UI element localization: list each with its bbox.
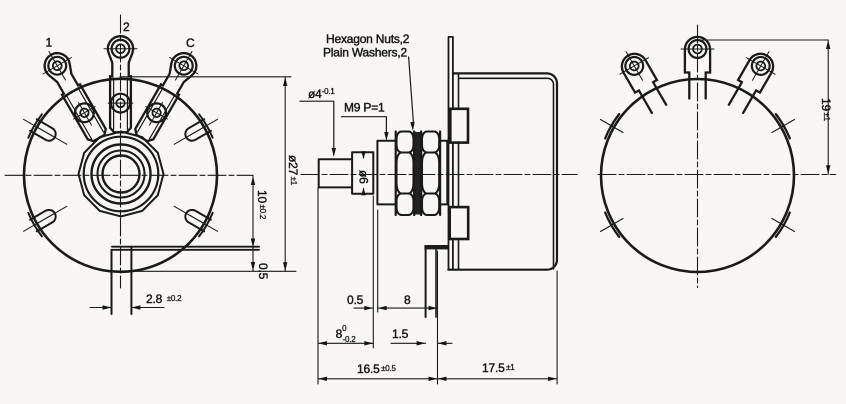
svg-text:2.8 ±0.2: 2.8 ±0.2 <box>146 292 182 306</box>
svg-text:2: 2 <box>123 20 130 34</box>
svg-text:M9 P=1: M9 P=1 <box>344 101 385 115</box>
svg-text:17.5±1: 17.5±1 <box>482 361 515 375</box>
svg-text:ø6: ø6 <box>357 170 371 184</box>
svg-text:0.5: 0.5 <box>256 263 270 280</box>
svg-text:Hexagon Nuts,2: Hexagon Nuts,2 <box>326 32 410 46</box>
svg-text:80-0.2: 80-0.2 <box>336 324 357 344</box>
svg-text:1.5: 1.5 <box>392 327 409 341</box>
svg-text:1: 1 <box>46 36 53 50</box>
svg-text:C: C <box>186 36 195 50</box>
svg-text:ø27±1: ø27±1 <box>286 155 300 186</box>
svg-text:10±0.2: 10±0.2 <box>255 190 269 220</box>
svg-text:16.5±0.5: 16.5±0.5 <box>357 362 397 376</box>
svg-text:8: 8 <box>404 293 411 307</box>
svg-text:0.5: 0.5 <box>347 293 364 307</box>
svg-text:ø4‑0.1: ø4‑0.1 <box>308 87 335 101</box>
svg-text:Plain Washers,2: Plain Washers,2 <box>323 46 407 60</box>
svg-text:19±1: 19±1 <box>819 98 833 122</box>
